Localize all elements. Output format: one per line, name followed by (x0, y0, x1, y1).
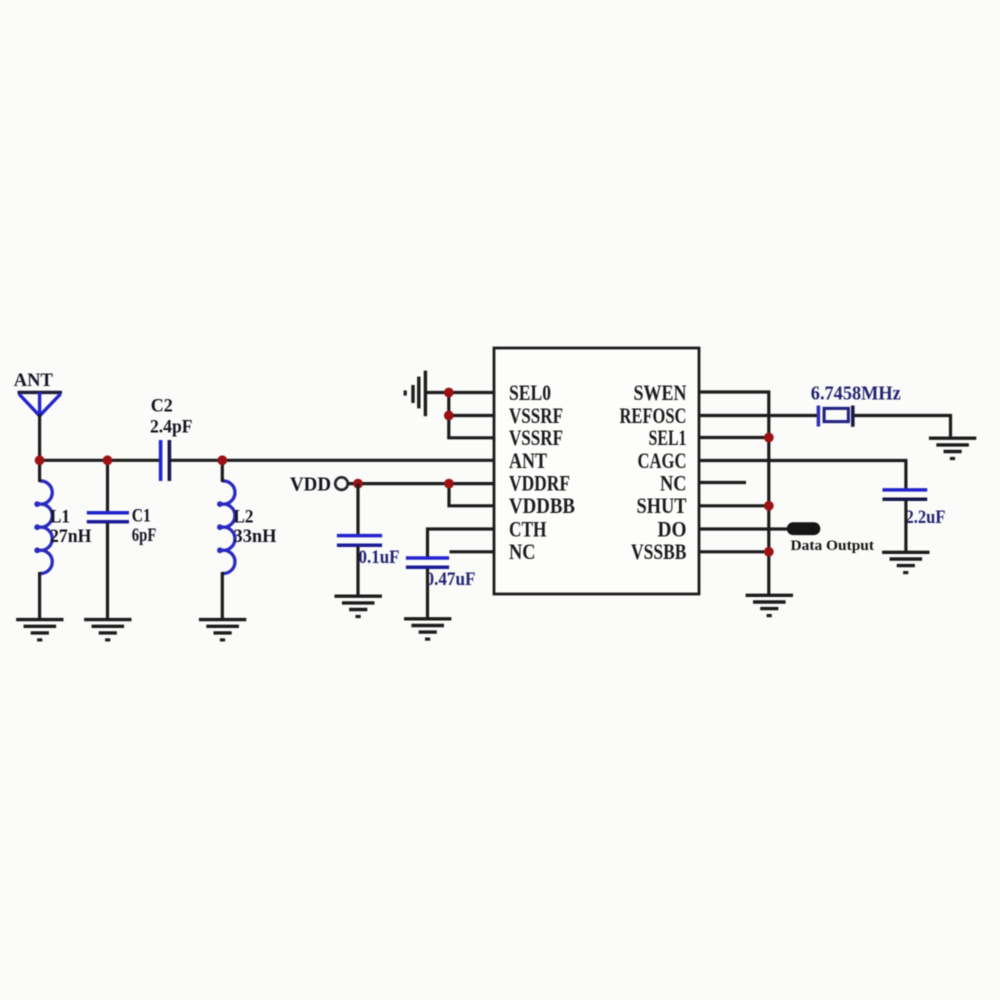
wire 2.2uF to ground (904, 501, 907, 554)
crystal Y1 6.7458MHz (818, 406, 852, 427)
wire VDD branch to VDDBB pin (449, 484, 495, 506)
svg-text:CTH: CTH (509, 516, 547, 541)
wire L2 top (221, 459, 224, 482)
svg-text:NC: NC (660, 470, 687, 495)
capacitor 0.1uF (337, 536, 382, 546)
svg-text:ANT: ANT (509, 448, 547, 473)
svg-text:VDD: VDD (290, 474, 331, 496)
wire REFOSC to crystal (698, 414, 817, 417)
wire 0.1uF to ground (356, 547, 359, 598)
junction dot VSSRF (444, 411, 454, 421)
svg-text:SEL1: SEL1 (649, 425, 687, 450)
ground right of crystal (929, 438, 976, 460)
wire VSS bus vertical + VSSRF2 pin (449, 393, 495, 438)
svg-text:SEL0: SEL0 (509, 380, 551, 405)
svg-text:VSSRF: VSSRF (509, 425, 563, 450)
inductor L2 (222, 481, 235, 574)
junction dot VDD (353, 479, 363, 489)
wire C1 to ground (106, 523, 109, 621)
junction dot SHUT (764, 501, 774, 511)
wire CAGC to 2.2uF (698, 461, 906, 489)
capacitor C1 (87, 513, 129, 522)
capacitor 2.2uF (883, 490, 928, 499)
inductor L1 (40, 481, 53, 574)
wire ground to SEL0 pin (425, 391, 495, 394)
wire 0.47uF to ground (426, 569, 429, 620)
wire VDD to VDDRF pin (348, 482, 496, 485)
wire NC right stub (698, 481, 746, 484)
junction dot SEL0 (444, 388, 454, 398)
wire NC left pin stub (450, 550, 496, 553)
wire antenna to node A (38, 414, 41, 462)
capacitor C2 (161, 440, 170, 481)
ground under L2 (199, 620, 246, 642)
svg-text:VDDRF: VDDRF (509, 470, 570, 495)
wire DO to data output (698, 527, 789, 530)
wire SEL1 to bus (698, 436, 769, 439)
wire SHUT to bus (698, 504, 769, 507)
op-amp U1 IC body (494, 348, 699, 594)
wire CTH pin to 0.47uF (428, 529, 496, 557)
wire L1 to ground (38, 572, 41, 621)
svg-text:ANT: ANT (14, 370, 53, 391)
node junction dot C1 (103, 455, 113, 465)
junction dot VDDRF branch (444, 479, 454, 489)
capacitor 0.47uF (406, 558, 449, 567)
svg-text:27nH: 27nH (50, 526, 92, 547)
wire L2 to ground (221, 572, 224, 621)
svg-text:0.47uF: 0.47uF (426, 569, 476, 590)
svg-text:VSSBB: VSSBB (631, 539, 687, 564)
ground under L1 (16, 620, 63, 642)
node A junction dot (35, 455, 45, 465)
svg-text:SWEN: SWEN (634, 380, 687, 405)
svg-text:CAGC: CAGC (638, 448, 687, 473)
wire VSSBB to bus (698, 550, 769, 553)
svg-text:DO: DO (658, 516, 687, 541)
wire main RF net right of C2 (171, 459, 495, 462)
svg-text:2.4pF: 2.4pF (150, 416, 193, 437)
ground under bus (746, 595, 793, 617)
wire main RF net left of C2 (38, 459, 159, 462)
ground under 0.1uF (335, 596, 382, 618)
wire crystal to ground (855, 416, 951, 439)
svg-text:Data Output: Data Output (791, 538, 875, 554)
junction dot SEL1 (764, 433, 774, 443)
wire SWEN to bus (698, 392, 769, 596)
svg-text:REFOSC: REFOSC (620, 403, 687, 428)
wire C1 top (106, 460, 109, 511)
wire L1 top (38, 459, 41, 482)
svg-text:SHUT: SHUT (637, 493, 687, 518)
node junction dot L2 (217, 455, 227, 465)
svg-text:6.7458MHz: 6.7458MHz (811, 382, 901, 404)
data output pill (787, 522, 821, 535)
ground under 2.2uF (882, 552, 929, 574)
svg-text:L2: L2 (234, 507, 254, 528)
svg-text:L1: L1 (50, 507, 70, 528)
ground left of SEL0 (rotated) (404, 371, 426, 417)
svg-text:NC: NC (509, 539, 536, 564)
svg-text:C1: C1 (132, 506, 151, 527)
svg-text:VDDBB: VDDBB (509, 493, 575, 518)
junction dot VSSBB (764, 547, 774, 557)
svg-text:6pF: 6pF (132, 525, 157, 546)
VDD terminal circle (335, 477, 348, 490)
wire 0.1uF top (356, 484, 359, 534)
ground under 0.47uF (404, 619, 451, 641)
svg-text:33nH: 33nH (234, 526, 277, 547)
svg-text:VSSRF: VSSRF (509, 403, 563, 428)
wire VSSRF1 pin (449, 414, 495, 417)
antenna ANT symbol (18, 392, 63, 415)
ground under C1 (84, 620, 131, 642)
svg-text:C2: C2 (151, 396, 173, 417)
svg-text:0.1uF: 0.1uF (359, 547, 400, 568)
svg-text:2.2uF: 2.2uF (906, 507, 946, 528)
